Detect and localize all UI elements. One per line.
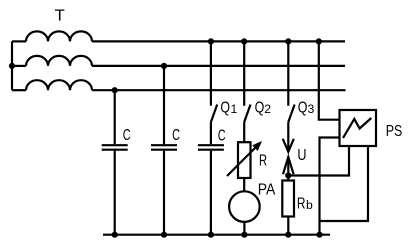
wire left stub phase A — [12, 40, 26, 42]
wire left vertical neutral tie — [11, 41, 13, 90]
node dot bus A / Q1 — [208, 38, 214, 44]
transformer T winding phase C — [26, 80, 92, 90]
svg-text:Q: Q — [298, 99, 308, 116]
svg-text:U: U — [297, 147, 306, 164]
resistor R variable arrow — [227, 145, 259, 177]
svg-text:2: 2 — [264, 102, 271, 116]
svg-text:Q: Q — [220, 99, 230, 116]
node dot bottom / PS return — [316, 232, 322, 238]
wire bottom return bus — [103, 234, 330, 236]
transformer T winding phase B — [26, 56, 92, 66]
switch Q1 blade — [211, 105, 217, 123]
ammeter PA circle — [229, 191, 260, 222]
capacitor C3 plates — [198, 144, 224, 146]
PS waveform symbol — [343, 118, 371, 138]
svg-text:R: R — [297, 196, 306, 213]
node dot above Rb — [285, 172, 291, 178]
node dot left tie phase B — [9, 63, 15, 69]
node dot bottom / Rb — [285, 232, 291, 238]
wire switch Q2 upper — [243, 41, 245, 105]
svg-text:R: R — [259, 153, 267, 170]
node dot bus A / Q2 — [241, 38, 247, 44]
wire Rb to bottom bus — [287, 217, 289, 235]
wire up-arrow shaft to node — [287, 157, 289, 176]
node dot bus A / PS drop — [316, 38, 322, 44]
wire switch Q3 upper — [287, 41, 289, 105]
wire capacitor C1 column — [114, 90, 116, 144]
transformer T winding phase A — [26, 31, 92, 41]
node dot bus B / C2 — [161, 63, 167, 69]
svg-text:C: C — [123, 127, 131, 144]
svg-text:3: 3 — [308, 102, 315, 116]
svg-text:PA: PA — [258, 182, 276, 199]
node dot bottom / PA — [241, 232, 247, 238]
capacitor C1 plates — [102, 144, 128, 146]
arrowhead Rb up — [283, 157, 294, 174]
switch Q3 blade — [288, 105, 294, 123]
wire bus phase A — [92, 40, 345, 42]
wire bus phase B — [92, 65, 345, 67]
wire PA to bottom bus — [243, 222, 245, 235]
svg-text:b: b — [306, 198, 313, 212]
resistor R arrowhead — [252, 141, 262, 151]
svg-text:1: 1 — [231, 102, 238, 116]
wire PS bottom-left pin to node above Rb — [288, 146, 349, 176]
wire Q3 down with U arrow shaft — [287, 122, 289, 151]
power supply PS box — [340, 110, 377, 146]
svg-text:Q: Q — [255, 99, 265, 116]
node dot bottom / C1 — [112, 232, 118, 238]
node dot bottom / C2 — [161, 232, 167, 238]
wire node to Rb — [287, 176, 289, 181]
wire left stub phase C — [12, 89, 26, 91]
wire phase A drop to PS — [319, 41, 340, 119]
resistor Rb body — [282, 181, 294, 217]
wire R to ammeter PA — [243, 178, 245, 191]
svg-text:PS: PS — [386, 123, 403, 140]
wire capacitor C3 column — [210, 122, 212, 144]
wire PS left-lower pin to bottom bus — [320, 138, 340, 235]
wire left stub phase B — [12, 65, 26, 67]
wire bus phase C — [92, 89, 346, 91]
svg-text:T: T — [55, 8, 66, 25]
resistor R body — [238, 142, 251, 178]
arrowhead U down — [283, 139, 294, 152]
capacitor C2 plates — [151, 144, 177, 146]
wire PS bottom-right pin return — [320, 146, 369, 221]
wire capacitor C2 column — [163, 66, 165, 144]
switch Q2 blade — [244, 105, 250, 123]
node dot bus A / Q3 — [285, 38, 291, 44]
wire switch Q1 upper — [210, 41, 212, 105]
svg-text:C: C — [172, 127, 180, 144]
node dot bus C / C1 — [112, 87, 118, 93]
node dot bottom / C3 — [208, 232, 214, 238]
wire Q2 to resistor R — [243, 122, 245, 142]
svg-text:C: C — [218, 127, 226, 144]
